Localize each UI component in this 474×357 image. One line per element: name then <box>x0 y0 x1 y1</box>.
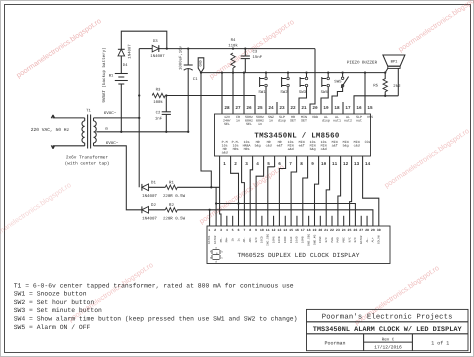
svg-text:6VAC~: 6VAC~ <box>106 141 119 146</box>
display U2 TM6052S body <box>207 226 390 264</box>
svg-text:8: 8 <box>249 228 251 232</box>
node V+ C1 junction <box>187 47 189 49</box>
svg-text:18: 18 <box>334 106 340 111</box>
svg-text:4: 4 <box>226 228 228 232</box>
wire D1 to R1 <box>149 186 166 188</box>
wire 6VAC top <box>94 117 140 119</box>
wire IC pin 13 to display <box>350 167 352 226</box>
wire IC pin 4 to display <box>250 167 252 226</box>
svg-text:10AD: 10AD <box>296 236 299 243</box>
svg-text:220R 0.5W: 220R 0.5W <box>163 217 186 222</box>
wire center tap <box>96 131 188 133</box>
svg-text:MAG: MAG <box>331 237 334 242</box>
svg-text:1nF: 1nF <box>155 117 163 122</box>
VSS ground rail <box>201 72 386 74</box>
svg-text:in: in <box>258 122 262 126</box>
svg-text:SEL: SEL <box>246 122 252 126</box>
svg-text:R2: R2 <box>169 203 174 208</box>
svg-text:25: 25 <box>348 228 352 232</box>
svg-text:N/C: N/C <box>254 237 258 242</box>
resistor R1 220R 0.5W <box>165 185 177 189</box>
svg-text:1c: 1c <box>237 238 240 242</box>
svg-text:10BC: 10BC <box>284 236 287 243</box>
svg-text:in: in <box>236 119 240 123</box>
svg-text:1N4007: 1N4007 <box>142 217 157 222</box>
svg-text:Poorman's Electronic Projects: Poorman's Electronic Projects <box>322 312 453 321</box>
svg-text:a&d: a&d <box>222 151 228 155</box>
svg-text:27: 27 <box>235 106 241 111</box>
svg-text:20: 20 <box>318 228 322 232</box>
diode D2 1N4007 <box>141 206 143 213</box>
svg-text:7: 7 <box>243 228 245 232</box>
svg-text:N/C: N/C <box>353 237 357 242</box>
svg-text:T1: T1 <box>86 109 91 114</box>
title block <box>307 309 469 350</box>
resistor R4 110k <box>232 47 234 49</box>
wire R3 to pin 25 <box>166 96 255 115</box>
svg-text:2k2: 2k2 <box>393 84 401 89</box>
svg-text:19: 19 <box>312 228 316 232</box>
svg-text:14: 14 <box>365 162 371 167</box>
wire D4 cathode to D3 cathode top bypass <box>121 31 167 49</box>
svg-text:COLON: COLON <box>378 235 381 244</box>
resistor R5 2k2 <box>384 73 386 79</box>
wire IC pin 10 to display <box>315 167 319 226</box>
svg-text:14: 14 <box>283 228 287 232</box>
svg-text:R4: R4 <box>231 38 236 43</box>
svg-text:26: 26 <box>246 106 252 111</box>
svg-text:SW2: SW2 <box>280 90 288 95</box>
svg-text:out2: out2 <box>344 119 352 123</box>
svg-text:5: 5 <box>232 228 234 232</box>
svg-text:1 of 1: 1 of 1 <box>431 341 449 347</box>
svg-text:20: 20 <box>312 106 318 111</box>
svg-text:6: 6 <box>238 228 240 232</box>
svg-text:out1: out1 <box>333 119 341 123</box>
svg-text:8: 8 <box>300 162 303 167</box>
svg-text:disp: disp <box>278 119 286 123</box>
svg-text:b&g: b&g <box>310 147 316 151</box>
svg-text:C3: C3 <box>253 50 258 55</box>
wire IC pin 8 to display <box>291 167 297 226</box>
svg-text:(with center tap): (with center tap) <box>65 161 110 167</box>
svg-text:DATH2: DATH2 <box>360 235 363 244</box>
svg-text:28: 28 <box>365 228 369 232</box>
svg-text:28: 28 <box>224 106 230 111</box>
svg-text:21: 21 <box>301 106 307 111</box>
svg-text:AL-: AL- <box>366 237 369 242</box>
svg-text:15nF: 15nF <box>253 55 263 60</box>
wire battery to center tap <box>120 84 122 132</box>
svg-text:DNE.SEG: DNE.SEG <box>307 233 310 245</box>
svg-text:6: 6 <box>278 162 281 167</box>
switch SW2 set hour <box>287 77 290 80</box>
svg-text:9: 9 <box>255 228 257 232</box>
svg-text:CATH1: CATH1 <box>208 235 211 244</box>
capacitor C1 1000uF 16v <box>187 49 189 65</box>
wire IC pin 9 to display <box>303 167 308 226</box>
svg-text:SW3: SW3 <box>299 90 307 95</box>
switch SW1 snooze <box>265 77 268 80</box>
wire IC pin 5 to display <box>256 167 264 226</box>
svg-text:SW4: SW4 <box>321 90 329 95</box>
svg-text:R5: R5 <box>373 84 378 89</box>
svg-text:23: 23 <box>336 228 340 232</box>
wire IC pin 1 to display <box>220 167 221 226</box>
switch SW5 alarm on/off <box>341 77 344 80</box>
svg-text:110k: 110k <box>228 43 238 48</box>
svg-text:CATH2: CATH2 <box>214 235 217 244</box>
svg-text:BP1: BP1 <box>391 59 399 64</box>
svg-text:17/12/2016: 17/12/2016 <box>374 344 402 350</box>
svg-text:25: 25 <box>257 106 263 111</box>
diode D1 1N4007 <box>141 184 143 191</box>
svg-text:INC.SEG: INC.SEG <box>267 233 270 245</box>
wire IC pin 11 to display <box>326 167 329 226</box>
svg-text:1: 1 <box>208 228 210 232</box>
piezo buzzer BP1 <box>383 55 405 66</box>
battery B1 9VBAT <box>115 73 128 75</box>
svg-text:b&g: b&g <box>343 143 349 147</box>
svg-text:T1 = 6-0-6v center tapped tran: T1 = 6-0-6v center tapped transformer, r… <box>14 282 294 289</box>
svg-text:1000uF,16v: 1000uF,16v <box>178 45 183 70</box>
svg-text:29: 29 <box>371 228 375 232</box>
svg-text:SW5: SW5 <box>334 79 342 84</box>
wire buzzer left lead <box>385 68 388 72</box>
svg-text:e&f: e&f <box>299 143 305 147</box>
svg-text:22: 22 <box>290 106 296 111</box>
svg-text:MBC: MBC <box>342 237 345 242</box>
svg-text:SET: SET <box>301 119 307 123</box>
svg-text:15: 15 <box>367 106 373 111</box>
transformer T1 primary input arrows <box>51 115 84 118</box>
svg-text:2: 2 <box>234 162 237 167</box>
svg-text:R3: R3 <box>156 87 161 92</box>
svg-text:1N4007: 1N4007 <box>150 54 165 59</box>
svg-text:1: 1 <box>223 162 226 167</box>
svg-text:c&d: c&d <box>354 143 360 147</box>
svg-text:30: 30 <box>377 228 381 232</box>
svg-text:D4: D4 <box>123 63 128 68</box>
wire IC pin 14 to display <box>363 167 379 226</box>
svg-text:TMS3450NL ALARM CLOCK W/ LED D: TMS3450NL ALARM CLOCK W/ LED DISPLAY <box>313 326 463 334</box>
svg-text:HRs: HRs <box>233 147 239 151</box>
svg-text:C2: C2 <box>156 111 161 116</box>
svg-text:c&d: c&d <box>266 143 272 147</box>
svg-text:18: 18 <box>307 228 311 232</box>
svg-text:15: 15 <box>289 228 293 232</box>
svg-text:9: 9 <box>311 162 314 167</box>
svg-text:a&f: a&f <box>332 143 338 147</box>
switch SW4 alarm display <box>327 77 330 80</box>
wire D2 to R2 <box>149 209 166 211</box>
svg-text:SW1: SW1 <box>258 90 266 95</box>
capacitor C2 1nF <box>165 96 167 112</box>
svg-text:10NC: 10NC <box>319 236 322 243</box>
svg-text:c&d: c&d <box>321 147 327 151</box>
switch SW3 set minute <box>305 77 308 80</box>
svg-text:disp: disp <box>322 119 330 123</box>
7-segment digit icon <box>212 250 220 260</box>
wire IC pin 6 to display <box>268 167 275 226</box>
svg-text:12: 12 <box>272 228 276 232</box>
wire V+ rail <box>159 48 315 50</box>
svg-text:SW5 = Alarm ON / OFF: SW5 = Alarm ON / OFF <box>14 324 91 331</box>
svg-text:2x6v Transformer: 2x6v Transformer <box>66 154 109 160</box>
svg-text:HRs: HRs <box>244 147 250 151</box>
IC bottom pin stubs <box>219 156 221 167</box>
svg-text:10CD: 10CD <box>261 236 264 243</box>
svg-text:b&g: b&g <box>255 143 261 147</box>
wire 6VAC bottom to D2 <box>94 146 142 210</box>
capacitor C3 15nF <box>244 47 246 49</box>
svg-text:13: 13 <box>354 162 360 167</box>
svg-text:SW4 = Show alarm time button (: SW4 = Show alarm time button (keep press… <box>14 316 298 323</box>
svg-text:12: 12 <box>343 162 349 167</box>
svg-text:10MG: 10MG <box>272 236 275 243</box>
IC U1 TMS3450NL / LM8560 body <box>215 114 371 156</box>
svg-text:e&f: e&f <box>277 143 283 147</box>
wire R1 to cathode drop <box>177 186 219 188</box>
ground flag GND <box>198 58 204 73</box>
cathode line 1 <box>216 204 355 227</box>
svg-text:22: 22 <box>330 228 334 232</box>
svg-text:24: 24 <box>342 228 346 232</box>
svg-text:SW2 = Set hour button: SW2 = Set hour button <box>14 299 95 306</box>
svg-text:17: 17 <box>301 228 305 232</box>
diode D3 1N4007 <box>139 48 152 50</box>
svg-text:N/C: N/C <box>324 237 328 242</box>
svg-text:R1: R1 <box>169 180 174 185</box>
svg-text:21: 21 <box>324 228 328 232</box>
svg-text:2: 2 <box>214 228 216 232</box>
svg-text:in: in <box>269 119 273 123</box>
svg-text:3: 3 <box>220 228 222 232</box>
wire 6VAC top to D1 anode vertical <box>138 49 140 188</box>
svg-text:7: 7 <box>289 162 292 167</box>
svg-text:D2: D2 <box>151 203 156 208</box>
svg-text:220 VAC, 50 Hz: 220 VAC, 50 Hz <box>31 127 70 133</box>
svg-text:PIEZO BUZZER: PIEZO BUZZER <box>347 60 378 65</box>
wire cathode 1 drop to display pin 2 <box>215 187 217 226</box>
svg-text:10: 10 <box>260 228 264 232</box>
svg-text:4: 4 <box>256 162 259 167</box>
display unconnected pin stubs <box>226 216 228 226</box>
svg-text:PM-: PM- <box>220 237 223 242</box>
wire IC pin 2 to display <box>231 167 239 226</box>
wire IC pin 7 to display <box>279 167 285 226</box>
svg-text:PM+: PM+ <box>226 237 229 242</box>
svg-text:DNE.MG: DNE.MG <box>313 234 316 245</box>
wire display pin 1 drop <box>209 210 211 226</box>
svg-text:27: 27 <box>359 228 363 232</box>
svg-text:3: 3 <box>245 162 248 167</box>
wire pin 16 to R5 bottom <box>354 96 398 114</box>
wire VDD to pin 20 <box>310 49 315 114</box>
svg-text:6VAC~: 6VAC~ <box>104 111 117 116</box>
svg-text:10CB: 10CB <box>278 236 281 243</box>
IC top pin stubs <box>221 73 223 114</box>
wire ground rail to cathode line 1 <box>201 73 211 188</box>
svg-text:11: 11 <box>332 162 338 167</box>
svg-text:16: 16 <box>356 106 362 111</box>
svg-text:5: 5 <box>267 162 270 167</box>
svg-text:D3: D3 <box>153 39 158 44</box>
svg-text:11: 11 <box>266 228 270 232</box>
svg-text:10: 10 <box>321 162 327 167</box>
wire D4 anode to battery <box>120 56 122 74</box>
svg-text:C1: C1 <box>193 77 198 82</box>
cathode line 2 to display pin 29 <box>177 210 373 226</box>
svg-text:SEL: SEL <box>224 122 230 126</box>
resistor R2 220R 0.5W <box>165 208 177 212</box>
svg-text:SW1 = Snooze button: SW1 = Snooze button <box>14 291 87 298</box>
svg-text:SET: SET <box>290 119 296 123</box>
svg-text:B1: B1 <box>109 74 114 79</box>
svg-text:AM-: AM- <box>243 237 246 242</box>
svg-text:16: 16 <box>295 228 299 232</box>
svg-text:1b: 1b <box>230 238 234 242</box>
svg-text:AM+: AM+ <box>249 237 252 242</box>
svg-text:N/C: N/C <box>347 237 351 242</box>
svg-text:D1: D1 <box>151 180 156 185</box>
svg-text:GND: GND <box>198 60 203 66</box>
wire IC pin 3 to display <box>242 167 245 226</box>
svg-text:1N4007: 1N4007 <box>142 194 157 199</box>
svg-text:Rev C: Rev C <box>382 337 395 342</box>
svg-text:Poorman: Poorman <box>324 341 345 347</box>
svg-text:13: 13 <box>277 228 281 232</box>
svg-text:SW3 = Set minute button: SW3 = Set minute button <box>14 307 102 314</box>
wire IC pin 12 to display <box>338 167 341 226</box>
svg-text:26: 26 <box>353 228 357 232</box>
svg-text:out: out <box>356 119 362 123</box>
resistor R3 100k <box>152 93 165 97</box>
svg-text:a&d: a&d <box>288 147 294 151</box>
svg-text:100k: 100k <box>153 100 163 105</box>
svg-text:24: 24 <box>268 106 274 111</box>
svg-text:23: 23 <box>279 106 285 111</box>
svg-text:COL: COL <box>365 140 371 144</box>
wire pin 15 VSS to rail <box>364 73 366 114</box>
svg-text:19: 19 <box>323 106 329 111</box>
svg-text:220R 0.5W: 220R 0.5W <box>163 194 186 199</box>
svg-text:1N4007: 1N4007 <box>127 44 132 59</box>
svg-text:10AF: 10AF <box>290 236 293 243</box>
svg-text:10MB: 10MB <box>302 236 305 243</box>
svg-text:VSS: VSS <box>367 115 373 119</box>
svg-text:17: 17 <box>345 106 351 111</box>
svg-text:MAD: MAD <box>337 237 340 242</box>
svg-text:TM6052S DUPLEX LED CLOCK DISPL: TM6052S DUPLEX LED CLOCK DISPLAY <box>237 252 359 259</box>
svg-text:AL+: AL+ <box>372 237 375 242</box>
svg-text:VDD: VDD <box>312 115 318 119</box>
diode D4 1N4007 <box>118 48 125 50</box>
wire buzzer right lead <box>397 68 399 95</box>
